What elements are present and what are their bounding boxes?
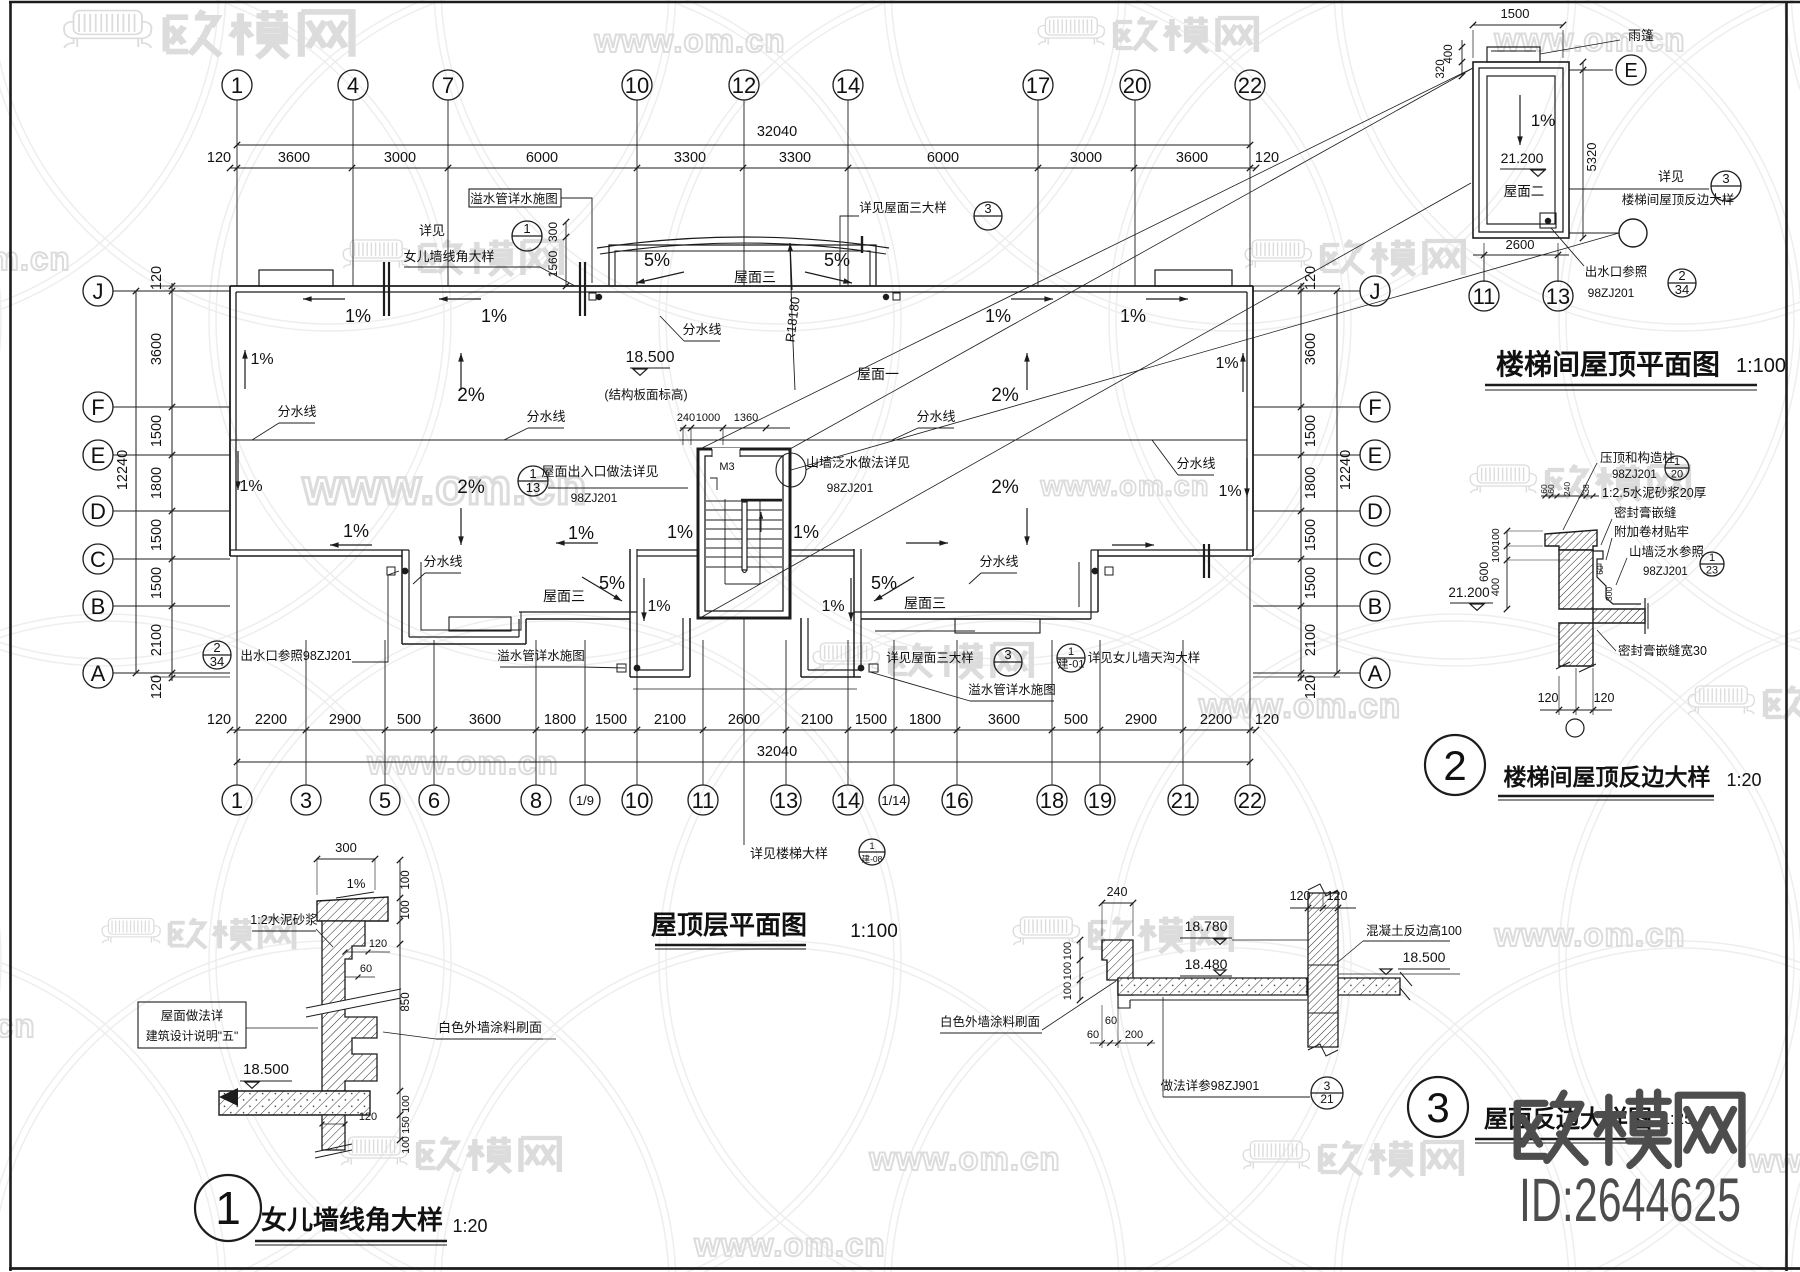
detail2 flashing profile <box>1593 551 1641 604</box>
svg-text:600: 600 <box>1477 562 1491 582</box>
detail1 slab hatched <box>219 1091 370 1115</box>
svg-text:3: 3 <box>1426 1084 1449 1131</box>
detail3 left dim chain <box>1079 940 1081 1000</box>
svg-text:1: 1 <box>215 1182 241 1234</box>
svg-text:240: 240 <box>1562 482 1572 496</box>
detail2 wall hatched <box>1559 550 1593 609</box>
svg-text:120: 120 <box>1303 675 1319 699</box>
svg-text:www.om.cn: www.om.cn <box>868 1140 1060 1177</box>
svg-text:18.500: 18.500 <box>626 349 675 366</box>
svg-text:60: 60 <box>1546 484 1556 494</box>
svg-text:溢水管详水施图: 溢水管详水施图 <box>968 682 1056 697</box>
svg-text:雨篷: 雨篷 <box>1628 28 1654 43</box>
detail1 wall below slab hatched <box>322 1115 345 1150</box>
left drain note <box>203 641 231 669</box>
svg-text:2%: 2% <box>991 477 1019 498</box>
svg-text:分水线: 分水线 <box>682 322 721 337</box>
detail2 bottom dim 120 120 <box>1540 709 1612 711</box>
svg-text:分水线: 分水线 <box>916 409 955 424</box>
top right wall bump <box>1155 270 1232 286</box>
roof plan right parapet wall <box>1252 286 1254 556</box>
svg-text:1: 1 <box>231 788 243 813</box>
svg-text:压顶和构造柱: 压顶和构造柱 <box>1600 450 1675 465</box>
svg-text:3000: 3000 <box>384 150 416 166</box>
stair shaft heavy walls <box>698 449 790 618</box>
bottom grid axis lines <box>236 556 238 785</box>
svg-text:3: 3 <box>1324 1079 1331 1093</box>
svg-text:详见女儿墙天沟大样: 详见女儿墙天沟大样 <box>1088 650 1201 665</box>
detail2 wall break <box>1556 662 1596 672</box>
svg-text:www.om.cn: www.om.cn <box>1748 1142 1800 1179</box>
svg-text:100: 100 <box>400 1095 412 1113</box>
svg-text:1%: 1% <box>347 876 366 891</box>
svg-text:3600: 3600 <box>1176 150 1208 166</box>
stairwell roof plan walls <box>1473 62 1569 238</box>
svg-text:D: D <box>90 499 106 524</box>
svg-text:屋面出入口做法详见: 屋面出入口做法详见 <box>541 464 658 479</box>
svg-text:120: 120 <box>369 938 387 950</box>
right dimension chain <box>1300 283 1302 681</box>
svg-text:13: 13 <box>526 480 540 495</box>
svg-text:白色外墙涂料刷面: 白色外墙涂料刷面 <box>438 1020 542 1035</box>
svg-text:密封膏嵌缝: 密封膏嵌缝 <box>1614 505 1677 520</box>
svg-text:1%: 1% <box>1215 355 1238 372</box>
svg-text:98ZJ201: 98ZJ201 <box>1612 469 1657 481</box>
stairwell drain <box>1540 213 1556 228</box>
detail2 parapet cap hatched <box>1545 530 1597 550</box>
structure level leader <box>630 367 670 369</box>
svg-text:3300: 3300 <box>779 150 811 166</box>
svg-text:400: 400 <box>1490 578 1502 596</box>
svg-text:200: 200 <box>1125 1029 1143 1041</box>
detail2 slab hatched <box>1593 609 1645 623</box>
lower wall arrows <box>330 544 372 546</box>
svg-text:1:2水泥砂浆: 1:2水泥砂浆 <box>250 912 318 927</box>
top dimension chain <box>230 167 1256 169</box>
svg-text:11: 11 <box>692 788 715 813</box>
svg-text:120: 120 <box>1255 150 1279 166</box>
svg-text:6000: 6000 <box>526 150 558 166</box>
svg-text:34: 34 <box>210 654 224 669</box>
svg-text:楼梯间屋顶反边大样: 楼梯间屋顶反边大样 <box>1622 192 1735 207</box>
svg-text:100: 100 <box>400 1136 412 1154</box>
svg-text:分水线: 分水线 <box>979 554 1018 569</box>
svg-text:120: 120 <box>207 150 231 166</box>
svg-text:20: 20 <box>1671 468 1683 480</box>
svg-text:1500: 1500 <box>1501 6 1530 21</box>
detail3 slab hatched left <box>1118 978 1307 995</box>
svg-text:屋顶层平面图: 屋顶层平面图 <box>651 910 807 940</box>
canopy end fittings <box>596 294 602 300</box>
svg-text:1: 1 <box>869 841 874 851</box>
svg-text:C: C <box>90 547 106 572</box>
svg-text:5320: 5320 <box>1584 143 1599 172</box>
svg-text:100: 100 <box>400 900 412 919</box>
svg-text:60: 60 <box>360 963 372 975</box>
svg-text:1500: 1500 <box>1303 519 1319 551</box>
svg-text:屋面做法详: 屋面做法详 <box>161 1008 224 1023</box>
svg-text:1500: 1500 <box>1303 567 1319 599</box>
detail3 column breaks <box>1308 884 1338 896</box>
svg-text:3600: 3600 <box>988 712 1020 728</box>
right recess inner parapet line <box>875 562 1079 631</box>
detail1 big circle 1 <box>195 1175 261 1241</box>
svg-text:240: 240 <box>677 412 695 424</box>
svg-text:1%: 1% <box>667 522 693 542</box>
svg-text:ID:2644625: ID:2644625 <box>1519 1166 1741 1234</box>
ridge watershed line <box>230 439 1247 441</box>
stairwell bottom grid bubbles <box>1469 281 1499 311</box>
svg-text:(结构板面标高): (结构板面标高) <box>604 387 687 402</box>
svg-text:2200: 2200 <box>255 712 287 728</box>
svg-text:120: 120 <box>1290 889 1311 903</box>
svg-text:320: 320 <box>1435 59 1447 78</box>
top grid axis circles <box>222 70 252 100</box>
left drain outlet <box>402 568 409 575</box>
svg-text:详见: 详见 <box>1658 169 1684 184</box>
svg-text:11: 11 <box>1473 284 1496 309</box>
svg-text:出水口参照: 出水口参照 <box>1585 264 1648 279</box>
svg-text:分水线: 分水线 <box>277 404 316 419</box>
stairwell right dim 5320 <box>1582 62 1584 238</box>
svg-text:21: 21 <box>1320 1092 1334 1106</box>
stairwell top dim 1500 <box>1473 24 1563 26</box>
detail1 roof construction note box <box>138 1002 246 1048</box>
top grid axis lines <box>236 100 238 286</box>
svg-text:12240: 12240 <box>115 450 131 490</box>
svg-text:详见: 详见 <box>419 223 445 238</box>
right overall dimension 12240 <box>1336 291 1338 673</box>
svg-text:E: E <box>91 443 106 468</box>
canopy vertical dimension 1560 300 <box>565 222 567 286</box>
top overall dimension 32040 <box>237 144 1250 146</box>
svg-text:www.om.cn: www.om.cn <box>0 1007 36 1044</box>
svg-text:1500: 1500 <box>855 712 887 728</box>
svg-text:300: 300 <box>1604 587 1614 601</box>
svg-text:E: E <box>1368 443 1383 468</box>
svg-text:3600: 3600 <box>1303 333 1319 365</box>
canopy radius R18180 <box>790 245 795 390</box>
svg-text:F: F <box>91 395 104 420</box>
detail2 top small dims <box>1541 495 1599 497</box>
svg-text:1: 1 <box>231 73 243 98</box>
svg-text:13: 13 <box>774 788 798 813</box>
top wall expansion joints <box>383 262 385 316</box>
roof plan bottom parapet wall middle segment <box>637 549 698 551</box>
svg-text:1500: 1500 <box>595 712 627 728</box>
svg-text:1%: 1% <box>481 306 507 326</box>
svg-text:10: 10 <box>625 788 649 813</box>
svg-text:1000: 1000 <box>696 412 720 424</box>
svg-text:3600: 3600 <box>278 150 310 166</box>
svg-text:A: A <box>1368 661 1383 686</box>
svg-text:山墙泛水参照: 山墙泛水参照 <box>1629 544 1704 559</box>
svg-text:1500: 1500 <box>149 567 165 599</box>
detail3 slab hatched right <box>1338 978 1400 995</box>
stair landing edge <box>741 499 782 502</box>
svg-text:850: 850 <box>400 992 412 1011</box>
left grid axis lines <box>113 290 230 292</box>
right recess curb <box>955 619 1040 633</box>
svg-text:1%: 1% <box>821 598 844 615</box>
svg-text:3: 3 <box>1004 647 1011 662</box>
svg-text:19: 19 <box>1088 788 1112 813</box>
bottom dimension chain <box>230 729 1256 731</box>
svg-text:1: 1 <box>523 221 530 236</box>
site watermark big logo <box>1517 1092 1742 1165</box>
svg-text:14: 14 <box>836 788 860 813</box>
svg-text:www.om.cn: www.om.cn <box>1493 21 1685 58</box>
stairwell slope arrow <box>1519 95 1521 145</box>
svg-text:21.200: 21.200 <box>1448 585 1489 600</box>
svg-text:1500: 1500 <box>149 415 165 447</box>
svg-text:做法详参98ZJ901: 做法详参98ZJ901 <box>1161 1078 1260 1093</box>
svg-text:2: 2 <box>1443 742 1466 789</box>
svg-text:详见楼梯大样: 详见楼梯大样 <box>750 846 828 861</box>
svg-text:建筑设计说明"五": 建筑设计说明"五" <box>146 1028 239 1043</box>
svg-text:3600: 3600 <box>469 712 501 728</box>
svg-text:60: 60 <box>1087 1029 1099 1041</box>
svg-text:1:2.5水泥砂浆20厚: 1:2.5水泥砂浆20厚 <box>1602 485 1706 500</box>
detail3 dim 240 <box>1102 902 1133 904</box>
right recess drain <box>858 665 865 672</box>
canopy arc end bar <box>861 236 863 253</box>
detail2 bottom bubble <box>1566 719 1584 737</box>
stairwell canopy <box>1487 47 1540 62</box>
svg-text:500: 500 <box>1064 712 1088 728</box>
svg-text:22: 22 <box>1238 788 1262 813</box>
svg-text:屋面三: 屋面三 <box>904 595 946 611</box>
svg-text:女儿墙线角大样: 女儿墙线角大样 <box>403 249 494 264</box>
svg-text:2100: 2100 <box>801 712 833 728</box>
svg-text:500: 500 <box>397 712 421 728</box>
svg-text:120: 120 <box>1538 691 1559 705</box>
right drain outlet top <box>1092 568 1099 575</box>
svg-text:120: 120 <box>149 266 165 290</box>
svg-text:1: 1 <box>1709 552 1715 564</box>
svg-text:建-08: 建-08 <box>862 854 883 864</box>
gable flashing note <box>776 453 806 487</box>
svg-text:J: J <box>1370 279 1381 304</box>
svg-text:20: 20 <box>1123 73 1147 98</box>
svg-text:100: 100 <box>1490 545 1502 563</box>
bottom overall dimension 32040 <box>237 761 1250 763</box>
svg-text:2900: 2900 <box>329 712 361 728</box>
projection line 2 <box>790 68 1473 449</box>
svg-text:楼梯间屋顶反边大样: 楼梯间屋顶反边大样 <box>1504 764 1711 790</box>
svg-text:300: 300 <box>546 222 560 242</box>
svg-text:3: 3 <box>984 201 991 216</box>
right grid axis circles <box>1360 276 1390 306</box>
svg-text:详见屋面三大样: 详见屋面三大样 <box>859 200 947 215</box>
svg-text:1%: 1% <box>568 523 594 543</box>
svg-text:1%: 1% <box>345 306 371 326</box>
svg-text:7: 7 <box>442 73 454 98</box>
svg-text:溢水管详水施图: 溢水管详水施图 <box>470 191 558 206</box>
svg-text:22: 22 <box>1238 73 1262 98</box>
svg-text:1800: 1800 <box>1303 467 1319 499</box>
stairwell bottom dim 2600 <box>1473 254 1569 256</box>
svg-text:1800: 1800 <box>544 712 576 728</box>
stair flight boundary lines <box>724 499 726 584</box>
overflow pipe note boxed <box>469 189 561 207</box>
svg-text:240: 240 <box>1107 885 1128 899</box>
svg-text:100: 100 <box>1062 982 1074 1000</box>
svg-text:10: 10 <box>625 73 649 98</box>
svg-text:120: 120 <box>1594 691 1615 705</box>
svg-text:混凝土反边高100: 混凝土反边高100 <box>1366 923 1462 938</box>
svg-text:1%: 1% <box>647 598 670 615</box>
svg-text:分水线: 分水线 <box>1176 456 1215 471</box>
svg-text:1/14: 1/14 <box>881 793 906 808</box>
svg-text:1:100: 1:100 <box>850 921 898 942</box>
svg-text:3600: 3600 <box>149 333 165 365</box>
roof access door note <box>518 466 548 496</box>
svg-text:密封膏嵌缝宽30: 密封膏嵌缝宽30 <box>1618 643 1707 658</box>
svg-text:B: B <box>1368 594 1383 619</box>
svg-text:12240: 12240 <box>1338 450 1354 490</box>
svg-text:18.500: 18.500 <box>1403 949 1446 965</box>
svg-text:E: E <box>1624 60 1637 82</box>
svg-text:1%: 1% <box>343 521 369 541</box>
svg-text:女儿墙线角大样: 女儿墙线角大样 <box>261 1205 443 1235</box>
svg-text:98ZJ201: 98ZJ201 <box>827 481 874 495</box>
left recess drain <box>634 665 641 672</box>
roof plan bottom parapet wall left segment <box>230 549 409 551</box>
svg-text:www.om.cn: www.om.cn <box>693 1226 885 1263</box>
svg-text:2: 2 <box>213 640 220 655</box>
svg-text:2%: 2% <box>457 477 485 498</box>
svg-text:2100: 2100 <box>149 624 165 656</box>
svg-text:分水线: 分水线 <box>526 409 565 424</box>
detail1 right dim chain <box>399 860 401 1140</box>
svg-text:17: 17 <box>1026 73 1050 98</box>
svg-text:60: 60 <box>1595 565 1605 575</box>
svg-text:1500: 1500 <box>1303 415 1319 447</box>
svg-text:2: 2 <box>1678 268 1685 283</box>
svg-text:山墙泛水做法详见: 山墙泛水做法详见 <box>806 455 910 470</box>
stair detail note <box>743 618 745 845</box>
detail1 top dim 300 <box>317 858 375 860</box>
svg-text:4: 4 <box>347 73 359 98</box>
roof plan left parapet wall <box>229 286 231 556</box>
left dimension chain <box>171 283 173 681</box>
svg-text:2600: 2600 <box>1506 237 1535 252</box>
detail1 small dims 120 60 <box>345 951 390 953</box>
detail3 left upturn hatched <box>1102 940 1133 995</box>
stairwell right empty bubble <box>1619 219 1647 247</box>
svg-text:溢水管详水施图: 溢水管详水施图 <box>497 648 585 663</box>
detail1 wall with moldings hatched <box>322 921 377 1091</box>
svg-text:1: 1 <box>529 466 536 481</box>
svg-text:楼梯间屋顶平面图: 楼梯间屋顶平面图 <box>1496 349 1720 380</box>
projection line 4 <box>700 183 1471 618</box>
svg-text:98ZJ201: 98ZJ201 <box>1588 286 1635 300</box>
svg-text:23: 23 <box>1706 564 1718 576</box>
svg-text:2900: 2900 <box>1125 712 1157 728</box>
svg-text:100: 100 <box>1062 942 1074 960</box>
svg-text:120: 120 <box>1255 712 1279 728</box>
roof plan top parapet wall <box>230 285 1253 287</box>
svg-text:100: 100 <box>1062 962 1074 980</box>
svg-text:白色外墙涂料刷面: 白色外墙涂料刷面 <box>940 1014 1040 1029</box>
svg-text:F: F <box>1368 395 1381 420</box>
svg-text:14: 14 <box>836 73 860 98</box>
svg-text:建-01: 建-01 <box>1058 656 1085 670</box>
left overall dimension 12240 <box>135 291 137 673</box>
detail3 column hatched <box>1308 893 1338 1047</box>
right recess parapet walls <box>853 549 855 677</box>
svg-text:2100: 2100 <box>1303 624 1319 656</box>
detail1 cap hatched <box>317 897 388 921</box>
svg-text:98ZJ201: 98ZJ201 <box>571 491 618 505</box>
stair direction arrow <box>760 512 762 532</box>
left recess inner parapet line <box>421 562 521 630</box>
svg-text:2%: 2% <box>991 385 1019 406</box>
svg-text:屋面二: 屋面二 <box>1504 184 1545 199</box>
svg-text:120: 120 <box>207 712 231 728</box>
detail2 cap leader <box>1563 463 1597 530</box>
stair central slot <box>742 502 747 570</box>
walkway line below stair <box>633 688 857 690</box>
svg-text:5%: 5% <box>644 250 670 270</box>
left grid axis circles <box>83 276 113 306</box>
svg-text:150: 150 <box>400 1116 412 1134</box>
svg-text:1/9: 1/9 <box>576 793 594 808</box>
svg-text:详见屋面三大样: 详见屋面三大样 <box>886 650 974 665</box>
svg-text:1%: 1% <box>1531 111 1556 130</box>
svg-text:屋面三: 屋面三 <box>734 269 776 285</box>
svg-text:M3: M3 <box>719 461 734 473</box>
top wall inner arrows <box>303 298 345 300</box>
detail2 left dim chain <box>1506 531 1508 609</box>
roof plan bottom parapet wall right segment <box>1091 549 1253 551</box>
stair shaft position dims 240 1000 1360 <box>680 427 790 429</box>
svg-text:1: 1 <box>1068 646 1074 658</box>
svg-text:1%: 1% <box>985 306 1011 326</box>
svg-text:18: 18 <box>1040 788 1064 813</box>
svg-text:13: 13 <box>1546 284 1570 309</box>
svg-text:1500: 1500 <box>149 519 165 551</box>
svg-text:分水线: 分水线 <box>423 554 462 569</box>
svg-text:1%: 1% <box>239 478 262 495</box>
stairwell grid E <box>1569 69 1613 71</box>
svg-text:3000: 3000 <box>1070 150 1102 166</box>
svg-text:3: 3 <box>1722 171 1729 186</box>
svg-text:5: 5 <box>379 788 391 813</box>
svg-text:J: J <box>93 279 104 304</box>
svg-text:2200: 2200 <box>1200 712 1232 728</box>
detail3 big circle 3 <box>1408 1077 1468 1137</box>
svg-text:120: 120 <box>1327 889 1348 903</box>
svg-text:屋面三: 屋面三 <box>543 588 585 604</box>
svg-text:6000: 6000 <box>927 150 959 166</box>
svg-text:3: 3 <box>300 788 312 813</box>
detail2 big circle 2 <box>1425 735 1485 795</box>
drawing border frame <box>9 1 12 1271</box>
svg-text:1560: 1560 <box>546 250 560 277</box>
svg-text:8: 8 <box>530 788 542 813</box>
svg-text:100: 100 <box>400 870 412 889</box>
svg-text:1%: 1% <box>793 522 819 542</box>
svg-text:100: 100 <box>1490 528 1502 546</box>
svg-text:1%: 1% <box>1120 306 1146 326</box>
projection line 1 <box>700 68 1473 449</box>
detail1 bottom dim 120 <box>322 1123 345 1125</box>
svg-text:3300: 3300 <box>674 150 706 166</box>
svg-text:32040: 32040 <box>757 744 797 760</box>
svg-text:21.200: 21.200 <box>1501 150 1544 166</box>
